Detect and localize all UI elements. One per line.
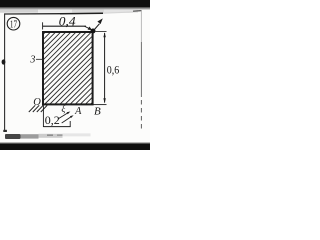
vertical dimension line 0,6	[104, 33, 106, 103]
top dimension line 0,4	[43, 25, 86, 27]
frame top edge	[5, 13, 61, 15]
plate outline	[43, 32, 93, 104]
bottom black scan band	[0, 143, 150, 150]
0,6 arrow up	[103, 32, 105, 37]
corner point dot	[91, 29, 96, 34]
gray band below top scan band	[0, 10, 38, 13]
0,6 arrow down	[103, 98, 105, 103]
bottom extension line right of plate	[93, 104, 107, 106]
frame right edge	[140, 10, 142, 42]
svg-text:0,2: 0,2	[45, 113, 60, 127]
frame left edge	[4, 13, 6, 131]
tick at end of 0,2	[69, 121, 71, 127]
extension of left edge down	[42, 105, 44, 127]
svg-text:A: A	[74, 106, 82, 117]
svg-text:17: 17	[10, 19, 17, 30]
extension line above left edge	[42, 22, 44, 29]
double arrows pointing to A	[58, 113, 68, 119]
svg-text:0,6: 0,6	[107, 65, 120, 77]
svg-text:3: 3	[29, 54, 35, 65]
support hatches under origin	[29, 105, 47, 112]
paper background	[0, 0, 150, 150]
top extension line to 0,6 dimension	[96, 31, 107, 33]
frame left foot	[3, 130, 7, 132]
top black scan band	[0, 0, 150, 7]
circled problem number 17	[7, 17, 20, 30]
svg-text:B: B	[94, 105, 101, 117]
leader arrow from dot (up-right)	[94, 24, 99, 30]
top dimension arrowhead	[88, 27, 93, 31]
plate hatching	[0, 32, 163, 105]
bottom dimension line 0,2	[43, 126, 70, 128]
ink blob on left frame	[2, 59, 6, 64]
svg-text:0,4: 0,4	[59, 13, 76, 28]
bottom scan smudges	[5, 134, 21, 139]
